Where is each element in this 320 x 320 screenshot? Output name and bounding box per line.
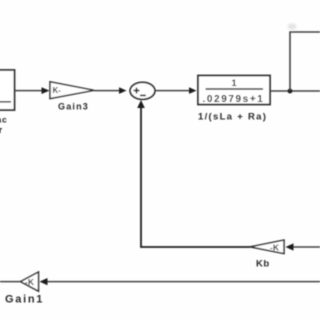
svg-text:ac: ac xyxy=(0,115,8,125)
svg-text:1: 1 xyxy=(232,78,237,88)
wire Gain1 output to left edge xyxy=(0,281,21,283)
bottom wire from right edge into Gain1 xyxy=(47,281,320,283)
arrowhead into Kb xyxy=(286,243,294,250)
wire source to Gain3 xyxy=(15,90,45,92)
arrowhead into Gain1 xyxy=(40,278,48,285)
arrowhead into sum xyxy=(119,87,127,94)
arrowhead into Gain3 xyxy=(42,87,50,94)
svg-text:Kb: Kb xyxy=(256,259,270,270)
svg-text:.02979s+1: .02979s+1 xyxy=(203,94,265,105)
wire sum to transfer fn xyxy=(155,90,190,92)
faint smudge above top-right corner xyxy=(288,24,297,30)
gain Kb xyxy=(250,240,284,254)
transfer function block 1/(.02979s+1) xyxy=(198,76,270,105)
sum plus sign xyxy=(134,88,140,94)
summing junction xyxy=(130,82,155,99)
arrowhead up into sum xyxy=(137,100,145,108)
arrowhead into transfer fn xyxy=(189,87,197,94)
svg-text:Gain1: Gain1 xyxy=(5,294,44,306)
svg-text:1/(sLa + Ra): 1/(sLa + Ra) xyxy=(198,111,267,122)
svg-text:K-: K- xyxy=(53,86,62,95)
junction node xyxy=(288,89,293,94)
gain Gain3 xyxy=(50,82,94,99)
svg-text:-K: -K xyxy=(25,277,35,287)
source block inner line xyxy=(0,101,11,103)
wire from right edge into Kb xyxy=(292,246,320,248)
svg-text:-K: -K xyxy=(270,242,280,252)
sum minus sign xyxy=(140,94,146,96)
svg-text:r: r xyxy=(0,125,3,136)
wire Kb to sum (feedback) xyxy=(141,107,250,247)
wire transfer fn to right edge xyxy=(270,90,320,92)
wire Gain3 to sum xyxy=(94,90,120,92)
wire junction up and to top right xyxy=(290,32,320,91)
gain Gain1 xyxy=(21,272,39,291)
source block (cropped at left edge) xyxy=(0,70,15,110)
fraction line xyxy=(206,88,264,90)
svg-text:Gain3: Gain3 xyxy=(58,102,89,112)
